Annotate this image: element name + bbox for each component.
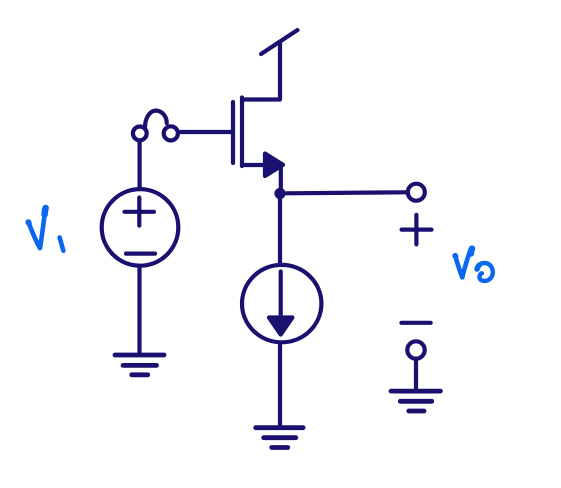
label V1 xyxy=(29,213,45,249)
current source arrow head xyxy=(269,318,292,335)
wire: channel to source arrow xyxy=(242,163,266,167)
input terminal circle right xyxy=(164,126,178,140)
wire: current source to ground xyxy=(278,344,282,427)
coupling arc xyxy=(145,111,167,128)
node dot xyxy=(274,188,285,199)
input terminal circle left xyxy=(133,126,147,140)
MOSFET Q1 channel bar xyxy=(240,98,244,167)
label Vo xyxy=(455,249,470,277)
wire: terminal to ground xyxy=(414,359,418,390)
V1 plus sign xyxy=(125,198,155,226)
ground under current source xyxy=(256,428,303,448)
wire: V1 to ground xyxy=(137,267,141,353)
wire: input to gate xyxy=(181,130,232,134)
MOSFET Q1 gate bar xyxy=(231,102,235,163)
V1 minus sign xyxy=(126,252,155,256)
MOSFET Q1 source arrow xyxy=(265,154,283,177)
ground (right) xyxy=(391,391,440,411)
ground under V1 xyxy=(115,355,164,375)
reference terminal circle xyxy=(407,341,424,358)
voltage source V1 circle xyxy=(102,189,179,266)
current source I1 circle xyxy=(242,265,321,342)
wire: node to current source xyxy=(278,196,282,264)
wire: left circle to V1 top xyxy=(138,142,142,188)
wire: node to output xyxy=(285,192,406,193)
wire: arrow to node xyxy=(279,166,283,190)
output terminal circle xyxy=(408,184,425,201)
plus sign (output) xyxy=(402,215,432,245)
wire: drain to supply xyxy=(242,43,280,100)
minus sign (output) xyxy=(401,321,430,325)
VDD supply slash xyxy=(261,30,298,54)
current source arrow xyxy=(279,272,283,317)
